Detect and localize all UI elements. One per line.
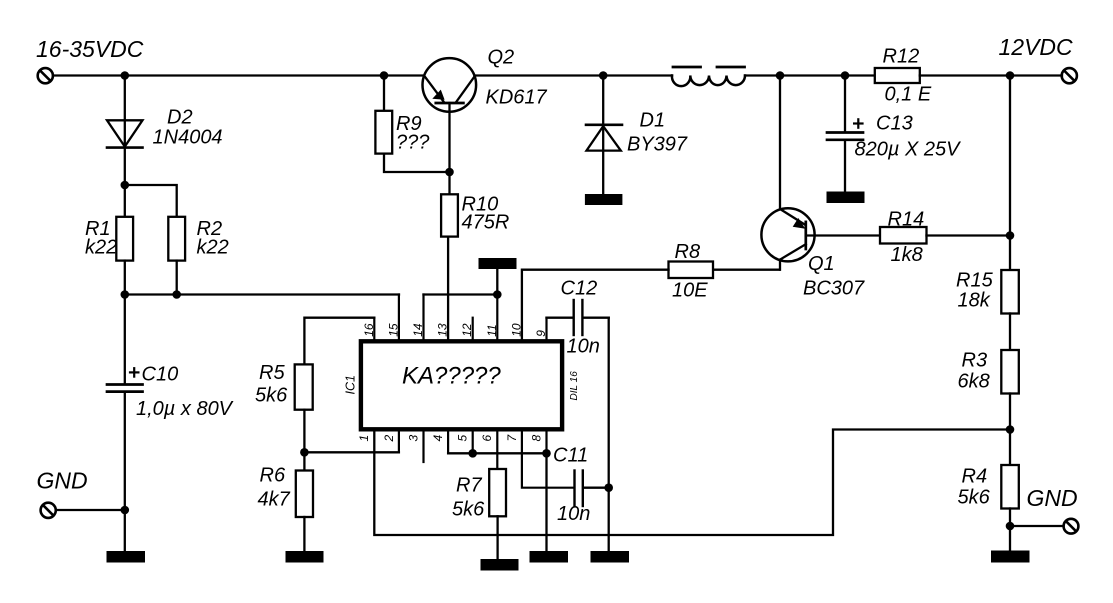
ground pin11 bbox=[479, 258, 517, 269]
terminal GND left bbox=[41, 503, 56, 518]
svg-text:2: 2 bbox=[382, 435, 396, 443]
node output junction bbox=[1006, 71, 1015, 80]
svg-text:16-35VDC: 16-35VDC bbox=[36, 36, 144, 62]
node R1 bottom junction bbox=[121, 290, 130, 299]
wire Q2 base down bbox=[448, 103, 450, 172]
wire feedback bus to pin15 bbox=[125, 293, 399, 295]
svg-text:4k7: 4k7 bbox=[258, 489, 291, 511]
wire R14 to divider bbox=[927, 234, 1011, 236]
divider chain wire top bbox=[1009, 76, 1011, 271]
wire R9 top bbox=[383, 76, 385, 111]
wire pin4 to pin8 bbox=[448, 452, 546, 454]
svg-text:6k8: 6k8 bbox=[958, 371, 990, 393]
wire R1 bottom bbox=[124, 261, 126, 295]
capacitor C11 bbox=[575, 471, 583, 507]
node C11/right bus junction bbox=[604, 483, 613, 492]
svg-text:D1: D1 bbox=[640, 110, 666, 132]
svg-text:8: 8 bbox=[529, 435, 543, 442]
svg-text:5k6: 5k6 bbox=[958, 487, 991, 509]
wire Q1 emitter bbox=[779, 76, 781, 210]
svg-text:Q2: Q2 bbox=[488, 47, 515, 69]
svg-text:5k6: 5k6 bbox=[452, 499, 485, 521]
svg-text:BC307: BC307 bbox=[803, 278, 865, 300]
svg-text:GND: GND bbox=[1027, 485, 1078, 511]
transistor Q1 bbox=[761, 208, 814, 270]
terminal GND right bbox=[1064, 519, 1079, 534]
svg-text:GND: GND bbox=[37, 468, 88, 494]
wire pin8 to ground bbox=[545, 453, 547, 551]
node R2 bottom junction bbox=[172, 290, 181, 299]
node R9/R10/base junction bbox=[445, 168, 454, 177]
wire R3 bottom bbox=[1009, 394, 1011, 466]
svg-text:6: 6 bbox=[480, 435, 494, 442]
wire pin9 to C12 bbox=[547, 317, 574, 319]
svg-text:BY397: BY397 bbox=[627, 134, 688, 156]
wire R4 bottom bbox=[1009, 509, 1011, 552]
pin 9 stub bbox=[545, 318, 547, 340]
ground D1 bbox=[585, 194, 623, 205]
wire GND right link bbox=[1010, 525, 1064, 527]
svg-text:C10: C10 bbox=[142, 364, 179, 386]
pin 11 stub bbox=[496, 295, 498, 341]
wire R10 to pin13 bbox=[447, 237, 449, 340]
svg-text:12VDC: 12VDC bbox=[999, 34, 1074, 60]
svg-text:1N4004: 1N4004 bbox=[153, 127, 223, 149]
wire pin10 to R8 bbox=[522, 270, 669, 340]
pin 15 stub bbox=[398, 295, 400, 341]
svg-text:820µ X 25V: 820µ X 25V bbox=[855, 139, 962, 161]
svg-text:R5: R5 bbox=[259, 362, 285, 384]
pin 8 stub bbox=[545, 429, 547, 453]
ground right bus bbox=[591, 551, 630, 563]
wire input rail left bbox=[54, 74, 424, 76]
wire C12 to right bus bbox=[583, 317, 608, 319]
wire pin6 to R7 bbox=[496, 429, 498, 469]
wire right ground bus bbox=[608, 318, 610, 552]
wire R2 bottom bbox=[176, 261, 178, 295]
svg-text:16: 16 bbox=[362, 323, 376, 337]
wire C13 bottom bbox=[844, 141, 846, 192]
svg-text:R8: R8 bbox=[675, 241, 701, 263]
svg-text:Q1: Q1 bbox=[808, 253, 835, 275]
wire R9 bottom bbox=[384, 154, 450, 172]
svg-text:4: 4 bbox=[431, 435, 445, 442]
wire R7 bottom bbox=[496, 516, 498, 559]
svg-text:KD617: KD617 bbox=[486, 87, 548, 109]
wire Q1 base to R14 bbox=[806, 234, 880, 236]
svg-text:475R: 475R bbox=[462, 212, 510, 234]
pin 12 stub bbox=[472, 318, 474, 340]
svg-text:10: 10 bbox=[509, 323, 523, 337]
wire R10 top bbox=[448, 172, 450, 194]
node GND-right junction bbox=[1006, 522, 1015, 531]
svg-text:15: 15 bbox=[386, 323, 400, 337]
transistor Q2 bbox=[423, 58, 477, 112]
svg-text:12: 12 bbox=[460, 323, 474, 337]
capacitor C10 bbox=[107, 368, 143, 391]
svg-text:10E: 10E bbox=[672, 280, 708, 302]
ground R6 bbox=[286, 551, 324, 563]
pin 16 stub bbox=[373, 318, 375, 340]
svg-text:C11: C11 bbox=[553, 445, 588, 467]
node R9 top junction bbox=[380, 71, 389, 80]
pin 3 stub bbox=[422, 429, 424, 462]
svg-text:10n: 10n bbox=[557, 503, 590, 525]
svg-text:DIL 16: DIL 16 bbox=[569, 371, 580, 401]
wire R6 bottom bbox=[303, 517, 305, 552]
svg-text:11: 11 bbox=[485, 324, 499, 336]
svg-text:R14: R14 bbox=[888, 209, 925, 231]
wire D2 branch bbox=[124, 76, 126, 186]
wire R1 top bbox=[124, 185, 126, 217]
node R14 junction bbox=[1006, 231, 1015, 240]
wire pin11 to ground bbox=[496, 269, 498, 295]
wire R5 bottom bbox=[303, 410, 305, 471]
svg-text:R6: R6 bbox=[260, 465, 286, 487]
svg-text:13: 13 bbox=[436, 323, 450, 337]
terminal 12VDC bbox=[1062, 68, 1077, 83]
wire pin1 long route bbox=[374, 429, 1010, 535]
inductor L1 bbox=[672, 67, 745, 86]
wire R15-R3 bbox=[1009, 314, 1011, 351]
terminal 16-35VDC bbox=[38, 68, 53, 83]
node divider mid junction bbox=[1006, 425, 1015, 434]
resistor R3 bbox=[1001, 350, 1019, 394]
resistor R15 bbox=[1001, 270, 1019, 314]
resistor R12 bbox=[875, 68, 920, 83]
node R5/R6/pin2 junction bbox=[300, 448, 309, 457]
svg-text:1,0µ x 80V: 1,0µ x 80V bbox=[136, 398, 234, 420]
svg-text:5: 5 bbox=[456, 435, 470, 442]
resistor R10 bbox=[441, 194, 458, 236]
pin 14 stub bbox=[422, 295, 424, 341]
ground R7 bbox=[481, 559, 519, 571]
svg-text:1k8: 1k8 bbox=[891, 244, 923, 266]
svg-text:R4: R4 bbox=[962, 466, 988, 488]
ground C13 bbox=[827, 192, 865, 204]
node D1 junction bbox=[599, 71, 608, 80]
resistor R1 bbox=[116, 217, 133, 261]
node pin8 junction bbox=[542, 449, 551, 458]
node C13 junction bbox=[841, 71, 850, 80]
svg-text:1: 1 bbox=[357, 435, 371, 442]
ground right bbox=[991, 551, 1030, 563]
wire pin7 to C11 bbox=[522, 429, 574, 487]
resistor R5 bbox=[295, 364, 313, 409]
svg-text:C13: C13 bbox=[876, 113, 913, 135]
resistor R6 bbox=[296, 471, 313, 518]
node D2/R1/R2 junction bbox=[121, 181, 130, 190]
resistor R7 bbox=[489, 469, 506, 516]
node Q1 emitter junction bbox=[776, 71, 785, 80]
resistor R2 bbox=[168, 217, 185, 261]
wire R2 jog bbox=[125, 185, 177, 217]
svg-text:18k: 18k bbox=[958, 290, 991, 312]
node input/D2 junction bbox=[121, 71, 130, 80]
svg-text:KA?????: KA????? bbox=[402, 363, 501, 390]
svg-text:10n: 10n bbox=[567, 336, 600, 358]
svg-text:k22: k22 bbox=[197, 237, 229, 259]
diode D1 bbox=[586, 125, 622, 151]
svg-text:5k6: 5k6 bbox=[255, 385, 288, 407]
wire R5 to pin16 bbox=[304, 318, 374, 365]
ground C10 bbox=[107, 551, 146, 563]
svg-text:3: 3 bbox=[406, 435, 420, 442]
resistor R4 bbox=[1001, 465, 1019, 509]
wire junction to pin2 bbox=[304, 451, 399, 453]
capacitor C12 bbox=[574, 300, 583, 335]
IC U1 KA????? bbox=[361, 341, 562, 429]
wire rail Q2 to inductor bbox=[475, 74, 673, 76]
wire D1 branch bbox=[602, 76, 604, 195]
svg-text:???: ??? bbox=[396, 132, 430, 154]
wire C10 top bbox=[124, 295, 126, 384]
svg-text:14: 14 bbox=[411, 323, 425, 337]
resistor R8 bbox=[669, 262, 714, 279]
pin 5 stub bbox=[472, 429, 474, 453]
svg-text:9: 9 bbox=[534, 330, 548, 337]
wire R12 to output bbox=[920, 74, 1062, 76]
svg-text:IC1: IC1 bbox=[344, 375, 358, 394]
wire pin14 to pin11 bbox=[424, 293, 498, 295]
wire rail inductor to R12 bbox=[745, 74, 875, 76]
svg-text:0,1 E: 0,1 E bbox=[885, 84, 932, 106]
wire C10 bottom bbox=[124, 393, 126, 552]
pin 2 stub bbox=[398, 429, 400, 452]
svg-text:R7: R7 bbox=[456, 475, 482, 497]
svg-text:D2: D2 bbox=[167, 107, 193, 129]
diode D2 bbox=[107, 120, 143, 147]
pin 4 stub bbox=[447, 429, 449, 453]
svg-text:R15: R15 bbox=[956, 270, 994, 292]
svg-text:R12: R12 bbox=[883, 46, 920, 68]
node GND-left junction bbox=[121, 506, 130, 515]
resistor R14 bbox=[880, 227, 927, 244]
resistor R9 bbox=[375, 111, 392, 154]
svg-text:k22: k22 bbox=[85, 237, 117, 259]
svg-text:R3: R3 bbox=[962, 350, 988, 372]
wire GND terminal link bbox=[56, 509, 125, 511]
wire C11 to right bus bbox=[584, 487, 609, 489]
wire R8 to Q1 collector bbox=[713, 269, 780, 271]
capacitor C13 bbox=[827, 119, 863, 140]
node pin5 junction bbox=[468, 449, 477, 458]
wire C13 top bbox=[844, 76, 846, 132]
svg-text:C12: C12 bbox=[561, 278, 598, 300]
ground pin8 bbox=[530, 551, 569, 563]
node pin11 junction bbox=[493, 290, 502, 299]
